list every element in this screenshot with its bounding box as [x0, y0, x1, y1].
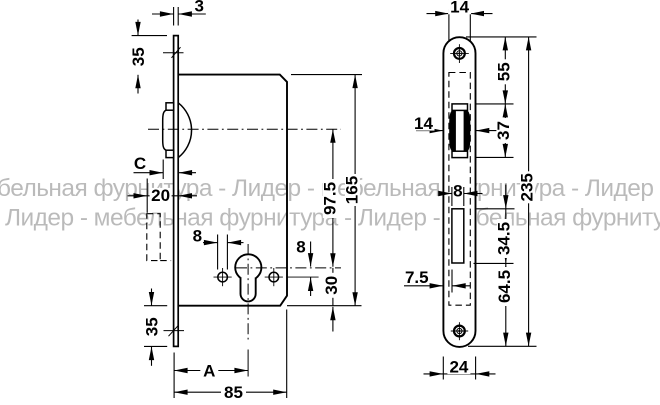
svg-text:24: 24 [449, 357, 468, 376]
dashed mortise pocket [147, 214, 160, 261]
dim C extension line [162, 160, 164, 180]
svg-text:8: 8 [296, 238, 305, 257]
latch centerline [148, 128, 341, 130]
latch bolt top cap (side view) [166, 103, 174, 110]
dim 165 line and arrows [354, 75, 356, 306]
cutout top extension line [477, 208, 515, 210]
dim 34.5 bottom arrow [503, 250, 508, 264]
svg-text:35: 35 [129, 47, 148, 66]
faceplate break tick top [163, 52, 184, 54]
dim A line and arrows [174, 370, 248, 372]
dim label 235 [520, 171, 535, 203]
svg-text:8: 8 [193, 227, 202, 246]
dim label 37 [496, 118, 511, 143]
svg-text:14: 14 [414, 114, 433, 133]
dim 8 cutout extension lines [451, 187, 453, 206]
latch bolt face bulge (side view) [163, 110, 166, 150]
dim 235 line and arrows [528, 37, 530, 346]
deadbolt cutout rectangle [452, 209, 464, 263]
latch top extension line [476, 103, 514, 105]
svg-text:235: 235 [518, 173, 537, 201]
dim 14 top arrows [427, 13, 449, 15]
strike plate outline [443, 37, 475, 347]
dim 8 vertical top arrow [310, 242, 312, 267]
dim 55 line and arrows [504, 37, 506, 104]
dim 30 line [332, 268, 334, 306]
svg-text:34.5: 34.5 [494, 222, 513, 255]
dim label 55 [497, 59, 512, 84]
latch bottom extension line [476, 156, 514, 158]
plate top extension line [466, 36, 537, 38]
dim 3 arrows [152, 13, 173, 15]
svg-text:C: C [134, 154, 146, 173]
dim 3 extension lines [173, 7, 175, 26]
dim A extension line [173, 353, 175, 399]
bottom screw hole [454, 326, 465, 337]
svg-text:14: 14 [450, 0, 469, 17]
cylinder horizontal centerline [236, 267, 341, 269]
lock case outline [178, 75, 287, 306]
case bottom extension line left [144, 305, 167, 307]
dim 35 bottom upper arrow [151, 289, 153, 306]
dashed plate cutout [449, 73, 470, 306]
dim 37 line and arrows [504, 104, 506, 157]
dim 20 extension line [146, 179, 148, 213]
dim 85 line and arrows [174, 391, 287, 393]
svg-text:20: 20 [151, 186, 170, 205]
dim 7.5 arrows [404, 285, 443, 287]
dim 14 top extension lines [448, 10, 450, 43]
dim label 14 left [413, 116, 435, 131]
dim 24 extension lines [442, 357, 444, 380]
plate bottom extension line [468, 345, 537, 347]
svg-text:30: 30 [322, 276, 341, 295]
dim label 34.5 [497, 219, 512, 258]
case bottom extension line right [287, 305, 362, 307]
cylinder circle (euro profile) [235, 254, 261, 280]
cylinder axis extension line [247, 350, 249, 377]
dim label 24 [447, 359, 470, 374]
svg-text:8: 8 [453, 181, 462, 200]
dim label A [200, 363, 218, 379]
svg-text:37: 37 [494, 121, 513, 140]
dim 35 top upper arrow [137, 20, 139, 36]
dim 34.5 top arrow [505, 185, 507, 209]
svg-text:165: 165 [342, 176, 361, 204]
screw axis extension line [288, 276, 319, 278]
dim 35 bottom lower arrow [151, 347, 153, 366]
svg-text:7.5: 7.5 [405, 268, 429, 287]
latch bolt bottom cap (side view) [166, 150, 174, 157]
cylinder stem (euro profile) [241, 278, 256, 302]
dim 64.5 line and arrows [505, 264, 507, 346]
dim 8 cylinder arrows [203, 242, 217, 244]
dim 85 extension line [286, 310, 288, 399]
dim label 97.5 [323, 179, 338, 218]
dim 97.5 line and arrows [332, 129, 334, 266]
dim label 64.5 [497, 267, 512, 306]
dim label 85 [221, 385, 246, 400]
dim 8 cutout arrows [441, 193, 452, 195]
latch bolt bottom cap (front view) [452, 151, 468, 157]
latch bolt body (front view) [449, 110, 470, 151]
svg-text:64.5: 64.5 [495, 270, 514, 303]
dim label 165 [345, 174, 360, 206]
faceplate break tick bottom [164, 330, 185, 332]
top screw hole [454, 48, 465, 59]
latch bolt top cap (front view) [452, 104, 468, 111]
dim 30 bottom arrow [332, 307, 334, 332]
dim 8 vertical bottom arrow [310, 278, 312, 297]
dim 35 top extension line [132, 35, 167, 37]
screw hole left [218, 272, 228, 282]
dim 34.5 line [505, 209, 507, 263]
dim label 20 [150, 188, 172, 203]
dim 35 top lower arrow [137, 75, 139, 94]
svg-text:35: 35 [142, 317, 161, 336]
faceplate strip (side view) [174, 36, 179, 347]
latch bevel arc inside case [178, 103, 191, 158]
dim 7.5 extension line [451, 270, 453, 293]
dim C arrows [134, 172, 164, 174]
case top extension line right [291, 74, 362, 76]
screw hole right [269, 272, 279, 282]
svg-text:A: A [203, 362, 215, 381]
cutout bottom extension line [474, 262, 514, 264]
cylinder vertical centerline [247, 244, 249, 341]
dim label 14 top [448, 0, 471, 14]
svg-text:3: 3 [194, 0, 203, 16]
svg-text:55: 55 [494, 62, 513, 81]
dim 8 cylinder extension lines [217, 235, 219, 270]
faceplate bottom extension line [144, 345, 167, 347]
dim 24 line and arrows [443, 373, 475, 375]
svg-text:85: 85 [224, 383, 243, 400]
dim 14 left arrows [416, 130, 443, 132]
dim label 30 [324, 273, 339, 298]
dim 20 line and arrows [147, 195, 178, 197]
svg-text:97.5: 97.5 [320, 182, 339, 215]
